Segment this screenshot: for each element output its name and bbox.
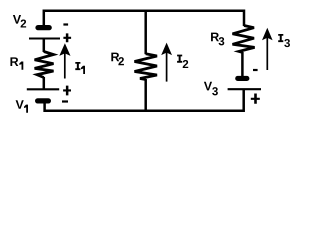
label V3 subscript 3 [212, 87, 218, 95]
label R1 [10, 57, 18, 66]
battery V3 negative plate (thick bar) [235, 76, 249, 81]
current arrow I2 head [161, 43, 172, 56]
label I3 subscript 3 [284, 39, 290, 47]
battery V2 negative plate (thick bar) [35, 25, 51, 30]
current arrow I3 head [262, 28, 273, 40]
wire middle branch top [144, 10, 147, 54]
wire bottom rail with left and right branch risers [45, 90, 244, 111]
battery V3 positive plate (thin long line) [228, 88, 261, 90]
current arrow I1 head [59, 43, 70, 56]
label V3 [204, 82, 212, 91]
plus sign of V3 [251, 94, 260, 104]
label I1 subscript 1 [81, 66, 85, 74]
resistor R1 zigzag [35, 52, 54, 78]
label I1 (serif I glyph) [75, 62, 80, 70]
minus sign of V2 [63, 23, 68, 25]
wire R3 to V3 [241, 52, 244, 77]
battery V1 positive plate (thin long line) [27, 88, 59, 90]
label R2 subscript 2 [118, 57, 124, 65]
resistor R3 zigzag [233, 26, 255, 53]
wire middle branch bottom [144, 79, 147, 111]
label R2 [111, 53, 119, 62]
label V1 [16, 100, 24, 109]
wire top rail with left and right branch drops [44, 11, 244, 26]
minus sign of V1 [62, 100, 68, 102]
label R1 subscript 1 [19, 62, 23, 70]
resistor R2 zigzag [135, 54, 158, 80]
battery V2 positive plate (thin long line) [29, 37, 60, 39]
wire V2 to R1 [43, 39, 46, 52]
current arrow I2 shaft [166, 53, 168, 82]
plus sign of V2 [63, 33, 71, 42]
wire R1 to V1 [43, 77, 46, 90]
label V2 [13, 15, 21, 24]
minus sign of V3 [253, 69, 258, 71]
label I3 (serif I glyph) [278, 34, 283, 42]
label R3 subscript 3 [219, 37, 225, 45]
label R3 [211, 33, 219, 42]
label I2 (serif I glyph) [177, 55, 182, 63]
label I2 subscript 2 [183, 60, 189, 68]
current arrow I1 shaft [64, 53, 66, 79]
label V1 subscript 1 [24, 105, 28, 113]
current arrow I3 shaft [266, 38, 268, 71]
plus sign of V1 [63, 86, 71, 96]
battery V1 negative plate (thick bar) [35, 98, 51, 103]
label V2 subscript 2 [21, 19, 27, 27]
